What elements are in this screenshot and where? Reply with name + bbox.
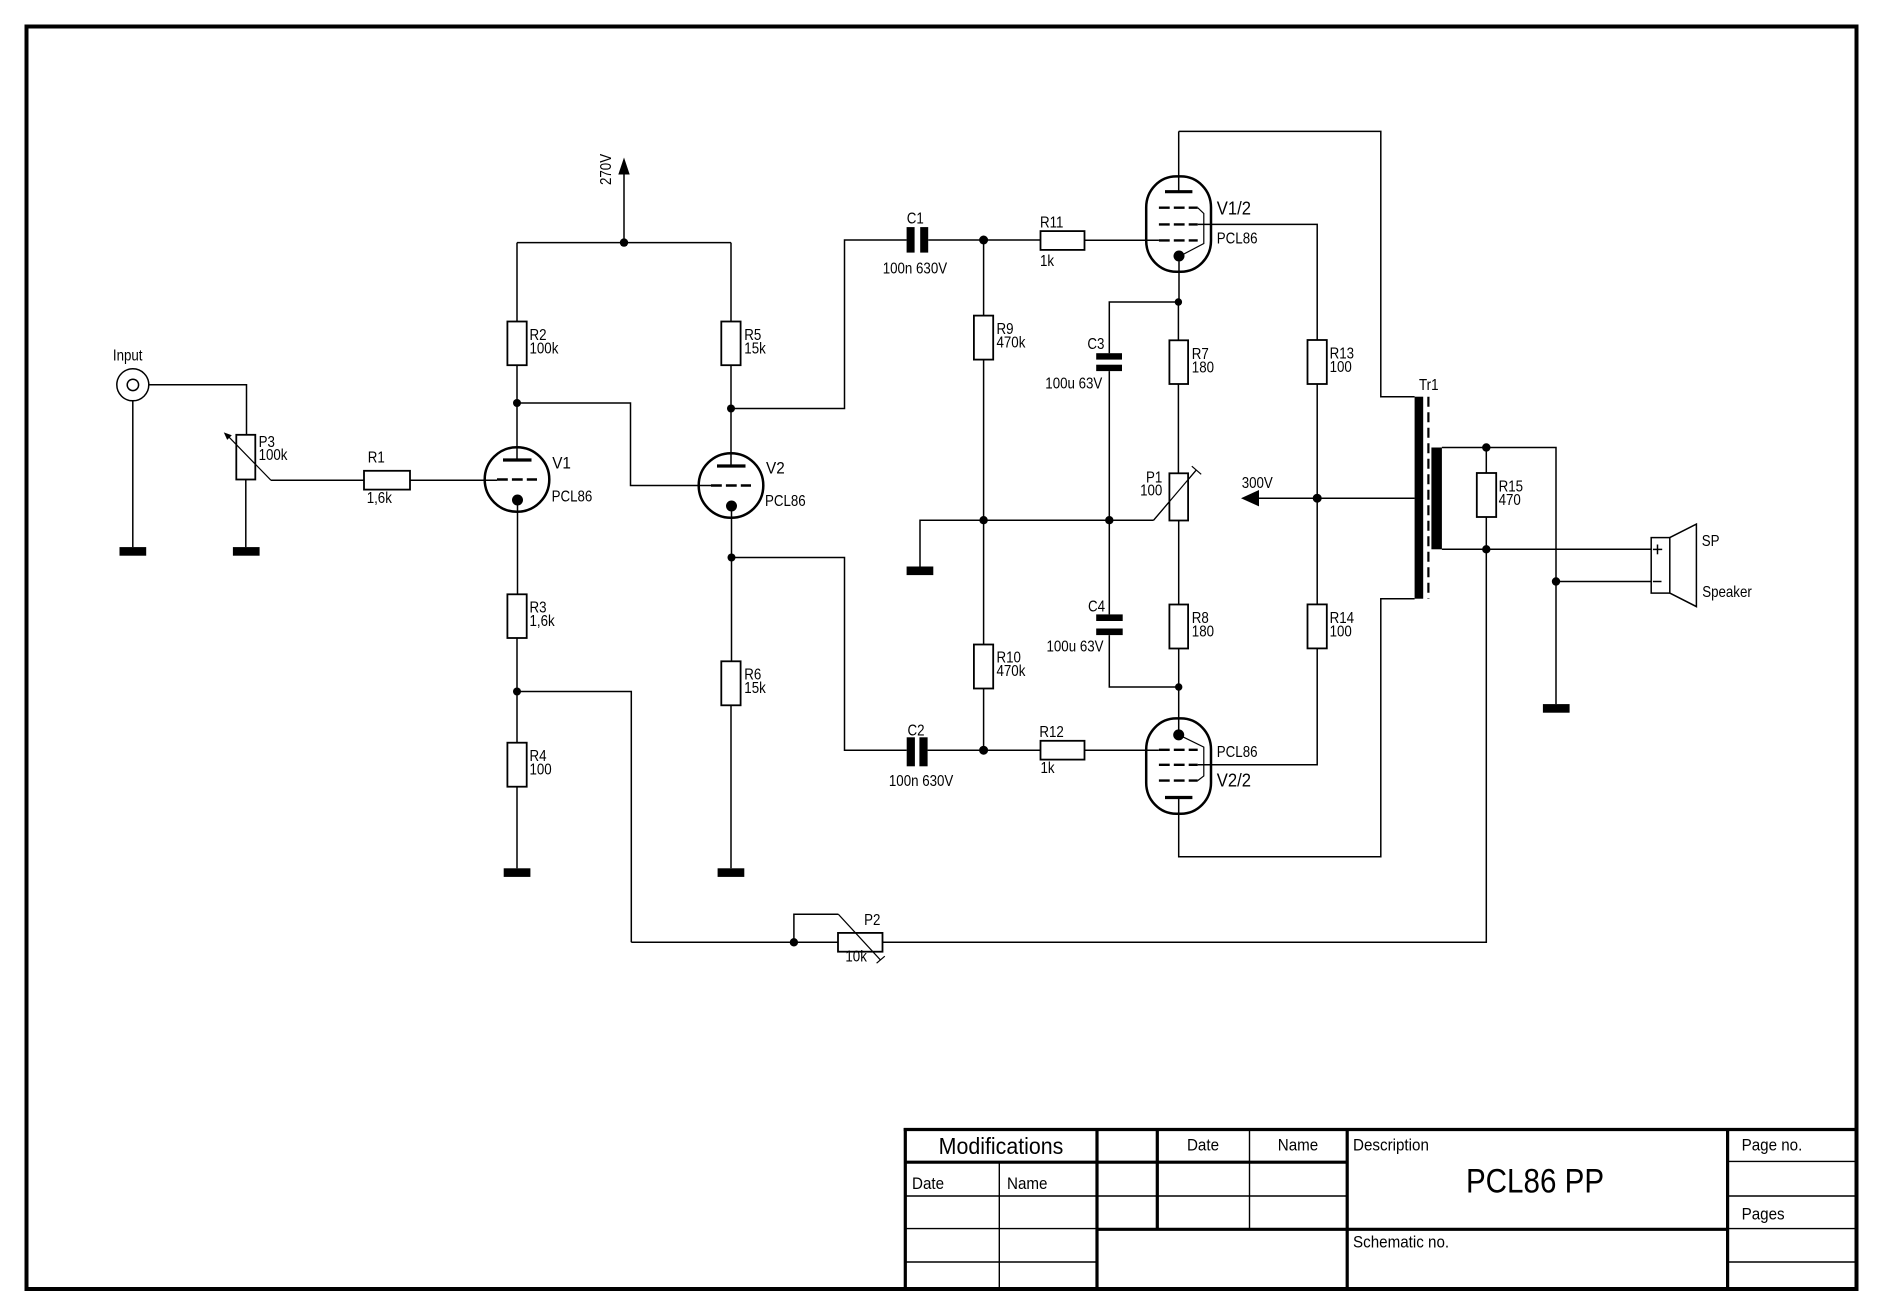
svg-text:100: 100 — [1330, 359, 1352, 376]
svg-text:SP: SP — [1702, 533, 1720, 550]
svg-text:100n 630V: 100n 630V — [883, 261, 948, 278]
svg-text:300V: 300V — [1242, 475, 1273, 492]
svg-text:PCL86: PCL86 — [1217, 744, 1258, 761]
svg-text:PCL86: PCL86 — [1217, 230, 1258, 247]
svg-text:Description: Description — [1353, 1137, 1429, 1155]
svg-text:V1: V1 — [552, 454, 571, 473]
svg-text:100n 630V: 100n 630V — [889, 773, 954, 790]
svg-text:Name: Name — [1007, 1175, 1048, 1193]
svg-text:V2: V2 — [766, 459, 785, 478]
svg-text:PCL86 PP: PCL86 PP — [1466, 1162, 1604, 1200]
svg-text:R1: R1 — [368, 450, 385, 467]
svg-text:C2: C2 — [908, 722, 925, 739]
svg-text:R11: R11 — [1040, 215, 1063, 232]
svg-text:Date: Date — [912, 1175, 944, 1193]
svg-text:10k: 10k — [845, 949, 867, 966]
svg-text:Page no.: Page no. — [1742, 1137, 1803, 1155]
svg-text:P2: P2 — [864, 912, 880, 929]
svg-text:1k: 1k — [1041, 760, 1056, 777]
svg-text:100u 63V: 100u 63V — [1045, 376, 1102, 393]
svg-text:470k: 470k — [997, 663, 1027, 680]
svg-text:Input: Input — [113, 348, 143, 365]
svg-text:PCL86: PCL86 — [552, 489, 593, 506]
svg-text:180: 180 — [1192, 360, 1214, 377]
svg-text:R12: R12 — [1039, 724, 1063, 741]
svg-text:180: 180 — [1192, 624, 1214, 641]
svg-text:PCL86: PCL86 — [765, 493, 806, 510]
svg-text:100k: 100k — [530, 340, 560, 357]
svg-text:Speaker: Speaker — [1702, 584, 1752, 601]
svg-text:Schematic no.: Schematic no. — [1353, 1234, 1449, 1252]
svg-text:Modifications: Modifications — [939, 1133, 1064, 1159]
svg-text:Tr1: Tr1 — [1419, 377, 1438, 394]
svg-text:V2/2: V2/2 — [1217, 770, 1251, 791]
svg-text:C3: C3 — [1087, 336, 1104, 353]
svg-text:100u 63V: 100u 63V — [1047, 639, 1104, 656]
svg-text:100: 100 — [1330, 624, 1352, 641]
svg-text:1,6k: 1,6k — [530, 613, 556, 630]
svg-text:1k: 1k — [1040, 253, 1055, 270]
svg-text:C4: C4 — [1088, 599, 1105, 616]
svg-text:Name: Name — [1278, 1137, 1319, 1155]
svg-text:100: 100 — [530, 762, 552, 779]
svg-text:Date: Date — [1187, 1137, 1219, 1155]
svg-text:1,6k: 1,6k — [367, 490, 393, 507]
svg-text:100: 100 — [1140, 483, 1162, 500]
svg-text:470: 470 — [1499, 492, 1521, 509]
svg-text:V1/2: V1/2 — [1217, 197, 1251, 218]
svg-text:100k: 100k — [259, 447, 289, 464]
svg-text:270V: 270V — [598, 154, 615, 185]
svg-text:15k: 15k — [744, 680, 766, 697]
svg-text:15k: 15k — [744, 340, 766, 357]
svg-text:C1: C1 — [907, 211, 924, 228]
svg-text:Pages: Pages — [1742, 1206, 1785, 1224]
svg-text:470k: 470k — [997, 334, 1027, 351]
